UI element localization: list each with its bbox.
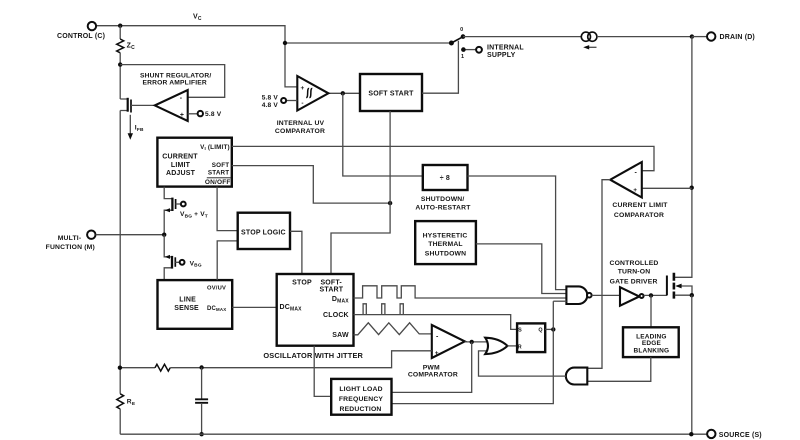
wire SAW output with sawtooth waveform to PWM comparator xyxy=(354,323,432,335)
wire stop logic output to oscillator STOP input xyxy=(290,231,302,274)
wire 5.8V reference lead xyxy=(188,113,198,115)
node M junction xyxy=(162,233,166,237)
switch internal supply selector xyxy=(463,49,476,51)
wire M node down to VBG transistor xyxy=(164,235,172,280)
svg-text:ON/OFF: ON/OFF xyxy=(205,179,231,186)
wire bottom feedback rail xyxy=(120,367,155,369)
svg-text:ADJUST: ADJUST xyxy=(166,170,196,177)
svg-text:LINE: LINE xyxy=(179,297,196,304)
node junction at ZC top xyxy=(118,24,122,28)
wire UV comparator output to soft start and divider xyxy=(328,92,360,94)
svg-text:SUPPLY: SUPPLY xyxy=(487,52,516,59)
svg-text:TURN-ON: TURN-ON xyxy=(618,269,651,276)
svg-text:STOP LOGIC: STOP LOGIC xyxy=(241,229,286,236)
box HYSTERETIC THERMAL SHUTDOWN xyxy=(415,221,476,264)
svg-text:SOURCE (S): SOURCE (S) xyxy=(719,432,762,439)
terminal MULTI-FUNCTION (M) xyxy=(87,231,95,239)
terminal SOURCE (S) xyxy=(707,430,715,438)
box LIGHT LOAD FREQUENCY REDUCTION xyxy=(331,379,391,415)
node capacitor junction xyxy=(199,365,203,369)
terminal DRAIN (D) xyxy=(692,36,707,38)
wire VBG+VT transistor drain from adjust box xyxy=(164,187,172,235)
node INTERNAL SUPPLY xyxy=(476,47,482,53)
wire right drain rail down to power MOSFET drain xyxy=(675,37,692,278)
wire feedback rail to PWM plus input xyxy=(170,351,432,368)
svg-text:STOP: STOP xyxy=(292,280,312,287)
svg-text:SOFT START: SOFT START xyxy=(368,90,414,97)
wire soft start output up to switch xyxy=(422,41,458,93)
wire AND output to OR input xyxy=(479,351,566,376)
transistor Q VBG+VT xyxy=(171,198,173,211)
svg-text:CONTROLLED: CONTROLLED xyxy=(610,260,659,267)
svg-text:OSCILLATOR WITH JITTER: OSCILLATOR WITH JITTER xyxy=(263,351,363,360)
box STOP LOGIC xyxy=(238,213,290,249)
gate AND U6 (points left) xyxy=(566,368,587,385)
op-amp U1 shunt regulator / error amplifier xyxy=(155,90,188,121)
wire ON/OFF to stop logic xyxy=(217,187,238,231)
wire current source to drain node xyxy=(597,36,692,38)
svg-text:-: - xyxy=(301,100,303,107)
svg-text:REDUCTION: REDUCTION xyxy=(339,406,381,413)
svg-text:COMPARATOR: COMPARATOR xyxy=(614,212,664,219)
svg-text:+: + xyxy=(633,187,637,194)
svg-text:INTERNAL: INTERNAL xyxy=(487,44,524,51)
svg-text:THERMAL: THERMAL xyxy=(428,241,462,248)
wire current limit comparator output down to AND gate xyxy=(587,180,610,369)
svg-text:+: + xyxy=(435,350,439,357)
wire OV/UV to stop logic xyxy=(217,241,238,280)
wire gate lead from error amp xyxy=(131,104,155,106)
wire Q to NAND input xyxy=(553,300,566,302)
svg-text:COMPARATOR: COMPARATOR xyxy=(275,128,325,135)
wire RE bottom lead xyxy=(119,409,121,434)
wire M terminal to transistor node xyxy=(96,234,165,236)
wire DMAX output with square waveform to NAND xyxy=(354,286,567,298)
svg-text:1: 1 xyxy=(461,54,464,60)
op-amp U2 internal UV comparator xyxy=(297,76,328,111)
wire latch Q output xyxy=(545,328,553,330)
gate NAND U4 xyxy=(566,286,587,304)
svg-text:LIGHT LOAD: LIGHT LOAD xyxy=(339,386,382,393)
wire left rail below pass transistor xyxy=(119,111,121,394)
wire leading edge blanking to AND gate xyxy=(587,357,650,381)
node junction below ZC xyxy=(118,62,122,66)
svg-text:SAW: SAW xyxy=(332,332,349,339)
wire source rail down to SOURCE terminal xyxy=(691,295,693,434)
wire ZC top lead xyxy=(119,26,121,39)
node power MOSFET source junction xyxy=(690,293,694,297)
svg-text:START: START xyxy=(208,169,229,176)
transistor pass p-MOSFET bars xyxy=(127,98,129,112)
transistor Q2 power MOSFET xyxy=(666,276,668,296)
svg-text:R: R xyxy=(518,344,522,350)
node current limit sense junction xyxy=(690,186,694,190)
wire error amp feedback loop xyxy=(120,65,225,98)
box LEADING EDGE BLANKING xyxy=(623,327,679,357)
wire VC rail from CONTROL to UV drop xyxy=(96,26,285,43)
svg-text:FREQUENCY: FREQUENCY xyxy=(339,396,384,403)
wire driver output to power MOSFET gate xyxy=(644,294,667,296)
svg-text:BLANKING: BLANKING xyxy=(634,348,670,355)
wire UV comparator plus input drop xyxy=(285,43,297,87)
capacitor C1 xyxy=(201,368,203,399)
svg-text:SHUTDOWN: SHUTDOWN xyxy=(425,251,466,258)
wire bottom source rail xyxy=(120,433,707,435)
box CURRENT LIMIT ADJUST xyxy=(157,138,231,187)
wire soft start box bottom to soft-start node xyxy=(389,111,391,203)
svg-text:MULTI-: MULTI- xyxy=(58,235,82,242)
svg-text:5.8 V: 5.8 V xyxy=(262,95,279,102)
svg-text:SOFT: SOFT xyxy=(212,162,230,169)
svg-text:+: + xyxy=(301,85,305,92)
wire PWM node down to light load box xyxy=(392,342,472,393)
svg-text:÷ 8: ÷ 8 xyxy=(440,175,450,182)
node 5.8V reference xyxy=(198,111,203,116)
svg-text:CLOCK: CLOCK xyxy=(323,312,349,319)
transistor Q VBG xyxy=(171,256,173,269)
node 5.8/4.8 V input xyxy=(286,100,297,102)
resistor ZC xyxy=(117,39,124,53)
svg-text:HYSTERETIC: HYSTERETIC xyxy=(423,233,468,240)
wire switch to current source xyxy=(463,36,581,38)
svg-text:4.8 V: 4.8 V xyxy=(262,102,279,109)
node Q junction xyxy=(551,327,555,331)
node left rail junction xyxy=(118,366,122,370)
node soft-start junction xyxy=(388,201,392,205)
node drain junction xyxy=(690,34,694,38)
flip-flop latch S/R xyxy=(517,323,545,352)
svg-text:CURRENT: CURRENT xyxy=(162,154,198,161)
node source junction xyxy=(689,432,693,436)
svg-text:S: S xyxy=(518,328,522,334)
wire gate node down to leading edge blanking xyxy=(650,295,652,327)
svg-text:PWM: PWM xyxy=(423,365,440,372)
node junction on VC drop xyxy=(283,41,287,45)
svg-text:SENSE: SENSE xyxy=(174,305,199,312)
wire IFB arrow xyxy=(129,115,131,135)
svg-text:DCMAX: DCMAX xyxy=(207,306,226,312)
node gate junction xyxy=(649,293,653,297)
terminal CONTROL (C) xyxy=(88,22,96,30)
wire CLOCK output with pulse waveform to latch S input xyxy=(354,315,518,330)
transistor pass p-MOSFET stubs xyxy=(120,99,128,111)
wire PWM output to OR gate xyxy=(465,341,489,343)
svg-text:0: 0 xyxy=(460,27,463,33)
wire Q vertical net xyxy=(392,301,554,403)
svg-text:FUNCTION (M): FUNCTION (M) xyxy=(46,244,95,251)
svg-text:SHUTDOWN/: SHUTDOWN/ xyxy=(421,196,465,203)
box divide by 8 xyxy=(423,165,468,190)
svg-text:CURRENT LIMIT: CURRENT LIMIT xyxy=(612,202,668,209)
op-amp U3 current limit comparator xyxy=(642,187,692,189)
wire oscillator bottom to light load box xyxy=(314,346,331,397)
wire NAND output to gate driver xyxy=(592,294,620,296)
box SOFT START xyxy=(360,74,422,111)
wire soft-start node to oscillator SOFT-START input xyxy=(331,203,390,274)
wire DCMAX to oscillator xyxy=(232,306,277,308)
svg-text:INTERNAL UV: INTERNAL UV xyxy=(277,120,325,127)
wire divider output to NAND xyxy=(468,176,567,290)
resistor feedback (horizontal) xyxy=(155,364,170,371)
svg-text:EDGE: EDGE xyxy=(642,340,662,347)
current source symbol xyxy=(581,32,590,41)
box LINE SENSE xyxy=(158,280,233,329)
svg-text:SHUNT REGULATOR/: SHUNT REGULATOR/ xyxy=(140,72,211,79)
svg-text:START: START xyxy=(320,286,344,293)
svg-text:COMPARATOR: COMPARATOR xyxy=(408,372,458,379)
wire ZC bottom lead to left rail xyxy=(119,53,121,99)
gate OR U8 xyxy=(485,338,507,354)
svg-text:GATE DRIVER: GATE DRIVER xyxy=(610,279,658,286)
wire VI LIMIT to current limit comparator xyxy=(232,146,654,170)
op-amp U7 PWM comparator xyxy=(432,325,465,358)
svg-text:DRAIN (D): DRAIN (D) xyxy=(720,34,755,41)
svg-text:CONTROL (C): CONTROL (C) xyxy=(57,33,105,40)
svg-text:LIMIT: LIMIT xyxy=(171,162,191,169)
svg-text:Q: Q xyxy=(538,328,542,334)
box OSCILLATOR WITH JITTER xyxy=(277,274,354,346)
resistor RE xyxy=(117,394,124,409)
wire SOFT START from adjust box to soft-start node xyxy=(232,166,390,204)
svg-text:5.8 V: 5.8 V xyxy=(205,111,222,118)
svg-text:ERROR AMPLIFIER: ERROR AMPLIFIER xyxy=(142,79,207,86)
wire OR output to latch R input xyxy=(508,345,518,347)
node PWM output junction xyxy=(470,340,474,344)
svg-text:+: + xyxy=(180,112,184,119)
gate driver triangle U5 controlled turn-on xyxy=(620,287,639,306)
wire thermal shutdown output to NAND xyxy=(476,244,567,294)
svg-text:AUTO-RESTART: AUTO-RESTART xyxy=(415,205,471,212)
wire supply line to switch pole xyxy=(285,42,450,44)
svg-text:OV/UV: OV/UV xyxy=(207,286,226,292)
